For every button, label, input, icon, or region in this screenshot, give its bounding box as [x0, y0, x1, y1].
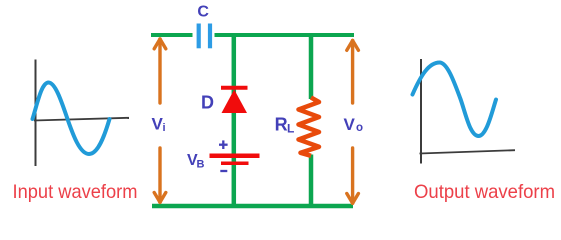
label Vi: [152, 115, 166, 135]
diode D: [221, 88, 248, 113]
output waveform horizontal axis: [420, 150, 516, 153]
svg-text:i: i: [163, 122, 166, 134]
battery VB: [210, 140, 260, 171]
resistor RL: [299, 98, 320, 156]
svg-text:L: L: [287, 121, 294, 135]
input waveform horizontal axis: [34, 118, 129, 121]
arrow Vi: [154, 39, 166, 202]
svg-text:C: C: [197, 4, 209, 21]
svg-text:V: V: [344, 115, 356, 134]
wire top left segment: [151, 33, 193, 37]
output waveform vertical axis: [420, 59, 422, 164]
wire bottom: [152, 204, 353, 209]
svg-text:B: B: [197, 159, 205, 171]
svg-text:R: R: [275, 115, 288, 135]
wire top right segment: [215, 33, 355, 37]
output waveform sine: [413, 63, 497, 137]
input waveform vertical axis: [35, 60, 37, 167]
wire resistor branch lower: [309, 155, 314, 207]
label RL: [275, 115, 295, 136]
label VB: [187, 152, 205, 171]
wire resistor branch upper: [309, 35, 314, 99]
input waveform sine: [33, 83, 110, 155]
svg-text:D: D: [201, 93, 214, 113]
capacitor C: [199, 24, 210, 49]
arrow Vo: [347, 41, 359, 204]
wire diode branch: [232, 35, 237, 206]
label Vo: [344, 115, 364, 134]
svg-text:o: o: [356, 122, 363, 134]
svg-text:Input waveform: Input waveform: [13, 181, 138, 203]
svg-text:Output waveform: Output waveform: [414, 181, 555, 203]
